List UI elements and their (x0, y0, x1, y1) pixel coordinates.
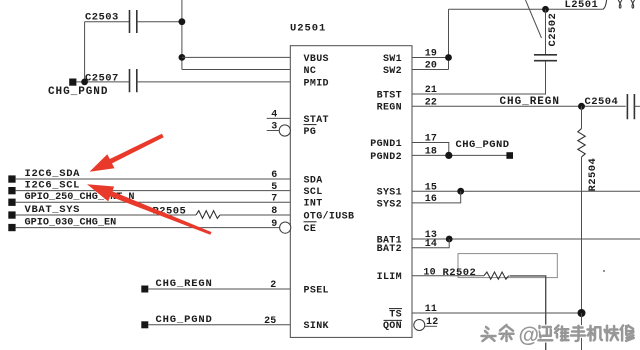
resistor R2504 (578, 129, 585, 157)
svg-text:CHG_REGN: CHG_REGN (500, 96, 560, 108)
svg-text:I2C6_SDA: I2C6_SDA (25, 168, 81, 180)
svg-text:BTST: BTST (377, 90, 402, 101)
svg-text:R2504: R2504 (587, 158, 599, 192)
wire pin 17 PGND1 with corner down (412, 143, 449, 156)
node junction C2503/vertical (179, 18, 186, 25)
svg-text:SW2: SW2 (383, 66, 402, 77)
wire pin 14 BAT2 with riser (412, 239, 449, 248)
annotation red arrow 1 (90, 134, 164, 172)
svg-text:REGN: REGN (377, 103, 402, 114)
svg-text:SW1: SW1 (383, 54, 402, 65)
svg-text:12: 12 (426, 317, 438, 328)
svg-text:L2501: L2501 (565, 0, 599, 11)
svg-text:CHG_PGND: CHG_PGND (48, 86, 108, 98)
wire R2504 bottom to TS node (581, 157, 583, 313)
svg-text:SYS1: SYS1 (377, 188, 402, 199)
resistor R2502 (484, 272, 509, 279)
svg-text:BAT2: BAT2 (377, 244, 402, 255)
svg-text:15: 15 (425, 182, 437, 193)
wire pin 19 SW1 (412, 57, 449, 59)
svg-text:PGND2: PGND2 (370, 152, 402, 163)
wire R2502 right then down to bottom edge (510, 276, 546, 350)
node I2C6_SDA square (8, 175, 15, 182)
wire pin 15 SYS1 long (412, 190, 640, 192)
node junction pin1 corner (179, 54, 186, 61)
svg-text:I2C6_SCL: I2C6_SCL (25, 180, 81, 192)
svg-text:16: 16 (425, 194, 437, 205)
wire pin 25 SINK (148, 324, 290, 326)
svg-text:19: 19 (425, 49, 437, 60)
svg-text:SYS2: SYS2 (377, 199, 402, 210)
capacitor C2503 (130, 10, 137, 33)
svg-text:U2501: U2501 (290, 23, 326, 35)
net CHG_PGND top-left square (69, 79, 76, 86)
wire R2505 to pin 8 OTG/IUSB (220, 214, 290, 216)
wire pin 6 SDA (16, 178, 291, 180)
svg-text:NC: NC (304, 66, 317, 77)
wire R2504 top lead (581, 106, 583, 128)
svg-text:CE: CE (304, 224, 317, 235)
wire pin 2 PSEL (148, 288, 290, 290)
wire pin 21 BTST (412, 93, 546, 95)
wire VBAT_SYS to R2505 (16, 214, 196, 216)
node junction SW (445, 54, 452, 61)
capacitor C2507 (130, 69, 137, 92)
node GPIO_250_CHG_INT_N square (8, 199, 15, 206)
IC U2501 body (290, 46, 412, 338)
capacitor C2504 (627, 94, 634, 119)
node junction top rail / C2502 / L2501 (542, 6, 549, 13)
wire pin 9 CE (16, 227, 280, 229)
wire pin 22 REGN to C2504 (412, 105, 626, 107)
svg-text:PGND1: PGND1 (370, 139, 402, 150)
node junction PGND (445, 152, 452, 159)
svg-text:SDA: SDA (304, 175, 323, 186)
wire pin 24 NC (182, 69, 290, 71)
watermark 头条 @迅维手机快修 (482, 324, 634, 347)
wire pin 20 SW2 + riser to top rail (412, 9, 449, 69)
dot artifact (603, 270, 605, 272)
svg-text:22: 22 (425, 98, 437, 109)
wire vertical from top edge to pin 24 row (181, 0, 183, 70)
svg-text:R2502: R2502 (443, 267, 477, 279)
svg-text:4: 4 (271, 110, 277, 121)
svg-text:SCL: SCL (304, 187, 323, 198)
resistor R2505 (196, 211, 220, 219)
svg-text:5: 5 (271, 182, 277, 193)
svg-text:21: 21 (425, 85, 437, 96)
wire C2504 right (634, 105, 640, 107)
wire pin 13 BAT1 long (412, 238, 640, 240)
svg-text:TS: TS (389, 309, 402, 320)
svg-text:VBAT_SYS: VBAT_SYS (25, 204, 81, 216)
svg-text:@: @ (519, 324, 539, 347)
node junction SYS (457, 188, 464, 195)
svg-text:11: 11 (425, 304, 437, 315)
svg-text:SINK: SINK (304, 321, 329, 332)
pin 3 PG stub (267, 130, 279, 132)
svg-text:18: 18 (425, 147, 437, 158)
svg-text:C2504: C2504 (585, 96, 619, 108)
svg-text:C2502: C2502 (547, 13, 559, 47)
svg-text:INT: INT (304, 199, 323, 210)
node I2C6_SCL square (8, 187, 15, 194)
svg-text:C2503: C2503 (85, 12, 119, 24)
wire C2502 top (545, 9, 547, 54)
svg-text:PG: PG (304, 127, 317, 138)
svg-text:CHG_PGND: CHG_PGND (156, 314, 213, 326)
node junction BAT (446, 236, 453, 243)
svg-text:PSEL: PSEL (304, 285, 329, 296)
svg-text:7: 7 (271, 193, 277, 204)
svg-text:10: 10 (423, 267, 435, 278)
svg-text:9: 9 (271, 219, 277, 230)
svg-text:ILIM: ILIM (377, 272, 402, 283)
wire pin 16 SYS2 with riser (412, 191, 461, 203)
wire pin 1 VBUS (182, 56, 290, 58)
wire CHG_PGND square to C2507 (76, 81, 129, 83)
svg-text:CHG_PGND: CHG_PGND (456, 139, 510, 151)
svg-text:QON: QON (383, 321, 402, 332)
wire TS node down to bottom edge (581, 313, 583, 350)
pin 12 QON inversion bubble (414, 320, 425, 331)
pin 3 PG inversion bubble (279, 125, 290, 136)
pin 4 STAT stub (267, 117, 291, 119)
wire C2502 bottom to BTST (545, 61, 547, 94)
wire pin 12 stub (425, 325, 437, 327)
node VBAT_SYS square (8, 211, 15, 218)
wire C2503 right (137, 21, 182, 23)
annotation red arrow 2 (87, 184, 212, 235)
svg-text:GPIO_030_CHG_EN: GPIO_030_CHG_EN (25, 218, 117, 229)
svg-text:2: 2 (270, 280, 276, 291)
wire pin 10 ILIM (412, 275, 484, 277)
net CHG_PGND right square (506, 152, 513, 159)
inductor L2501 (clipped at top edge) (603, 0, 635, 9)
wire pin 23 PMID from C2507 (137, 81, 290, 83)
node junction TS/R2504 (578, 309, 586, 317)
net CHG_PGND stub square pin 25 (141, 321, 148, 328)
svg-text:8: 8 (271, 206, 277, 217)
svg-text:CHG_REGN: CHG_REGN (156, 278, 213, 290)
node junction C2507 left (81, 79, 88, 86)
svg-text:25: 25 (264, 316, 276, 327)
wire pin 11 TS (412, 312, 582, 314)
node junction REGN/C2504/R2504 (578, 103, 585, 110)
wire pin 18 PGND2 (412, 154, 507, 156)
wire C2503 left + drop to CHG_PGND node (85, 22, 130, 82)
pin 9 CE inversion bubble (280, 222, 291, 233)
svg-text:VBUS: VBUS (304, 54, 329, 65)
svg-text:6: 6 (271, 170, 277, 181)
svg-text:20: 20 (425, 61, 437, 72)
svg-text:14: 14 (425, 239, 437, 250)
svg-text:C2507: C2507 (85, 73, 119, 85)
annotation gray box around R2502 (458, 254, 557, 278)
svg-text:17: 17 (425, 134, 437, 145)
node GPIO_030_CHG_EN square (8, 224, 15, 231)
capacitor C2502 (534, 55, 557, 61)
wire pin 7 INT (16, 201, 291, 203)
wire stray diagonal (526, 0, 542, 38)
svg-text:OTG/IUSB: OTG/IUSB (304, 210, 355, 222)
net CHG_REGN stub square pin 2 (141, 286, 148, 293)
svg-text:PMID: PMID (304, 78, 329, 89)
wire pin 5 SCL (16, 190, 291, 192)
svg-text:3: 3 (271, 122, 277, 133)
wire top rail to inductor (449, 8, 604, 10)
